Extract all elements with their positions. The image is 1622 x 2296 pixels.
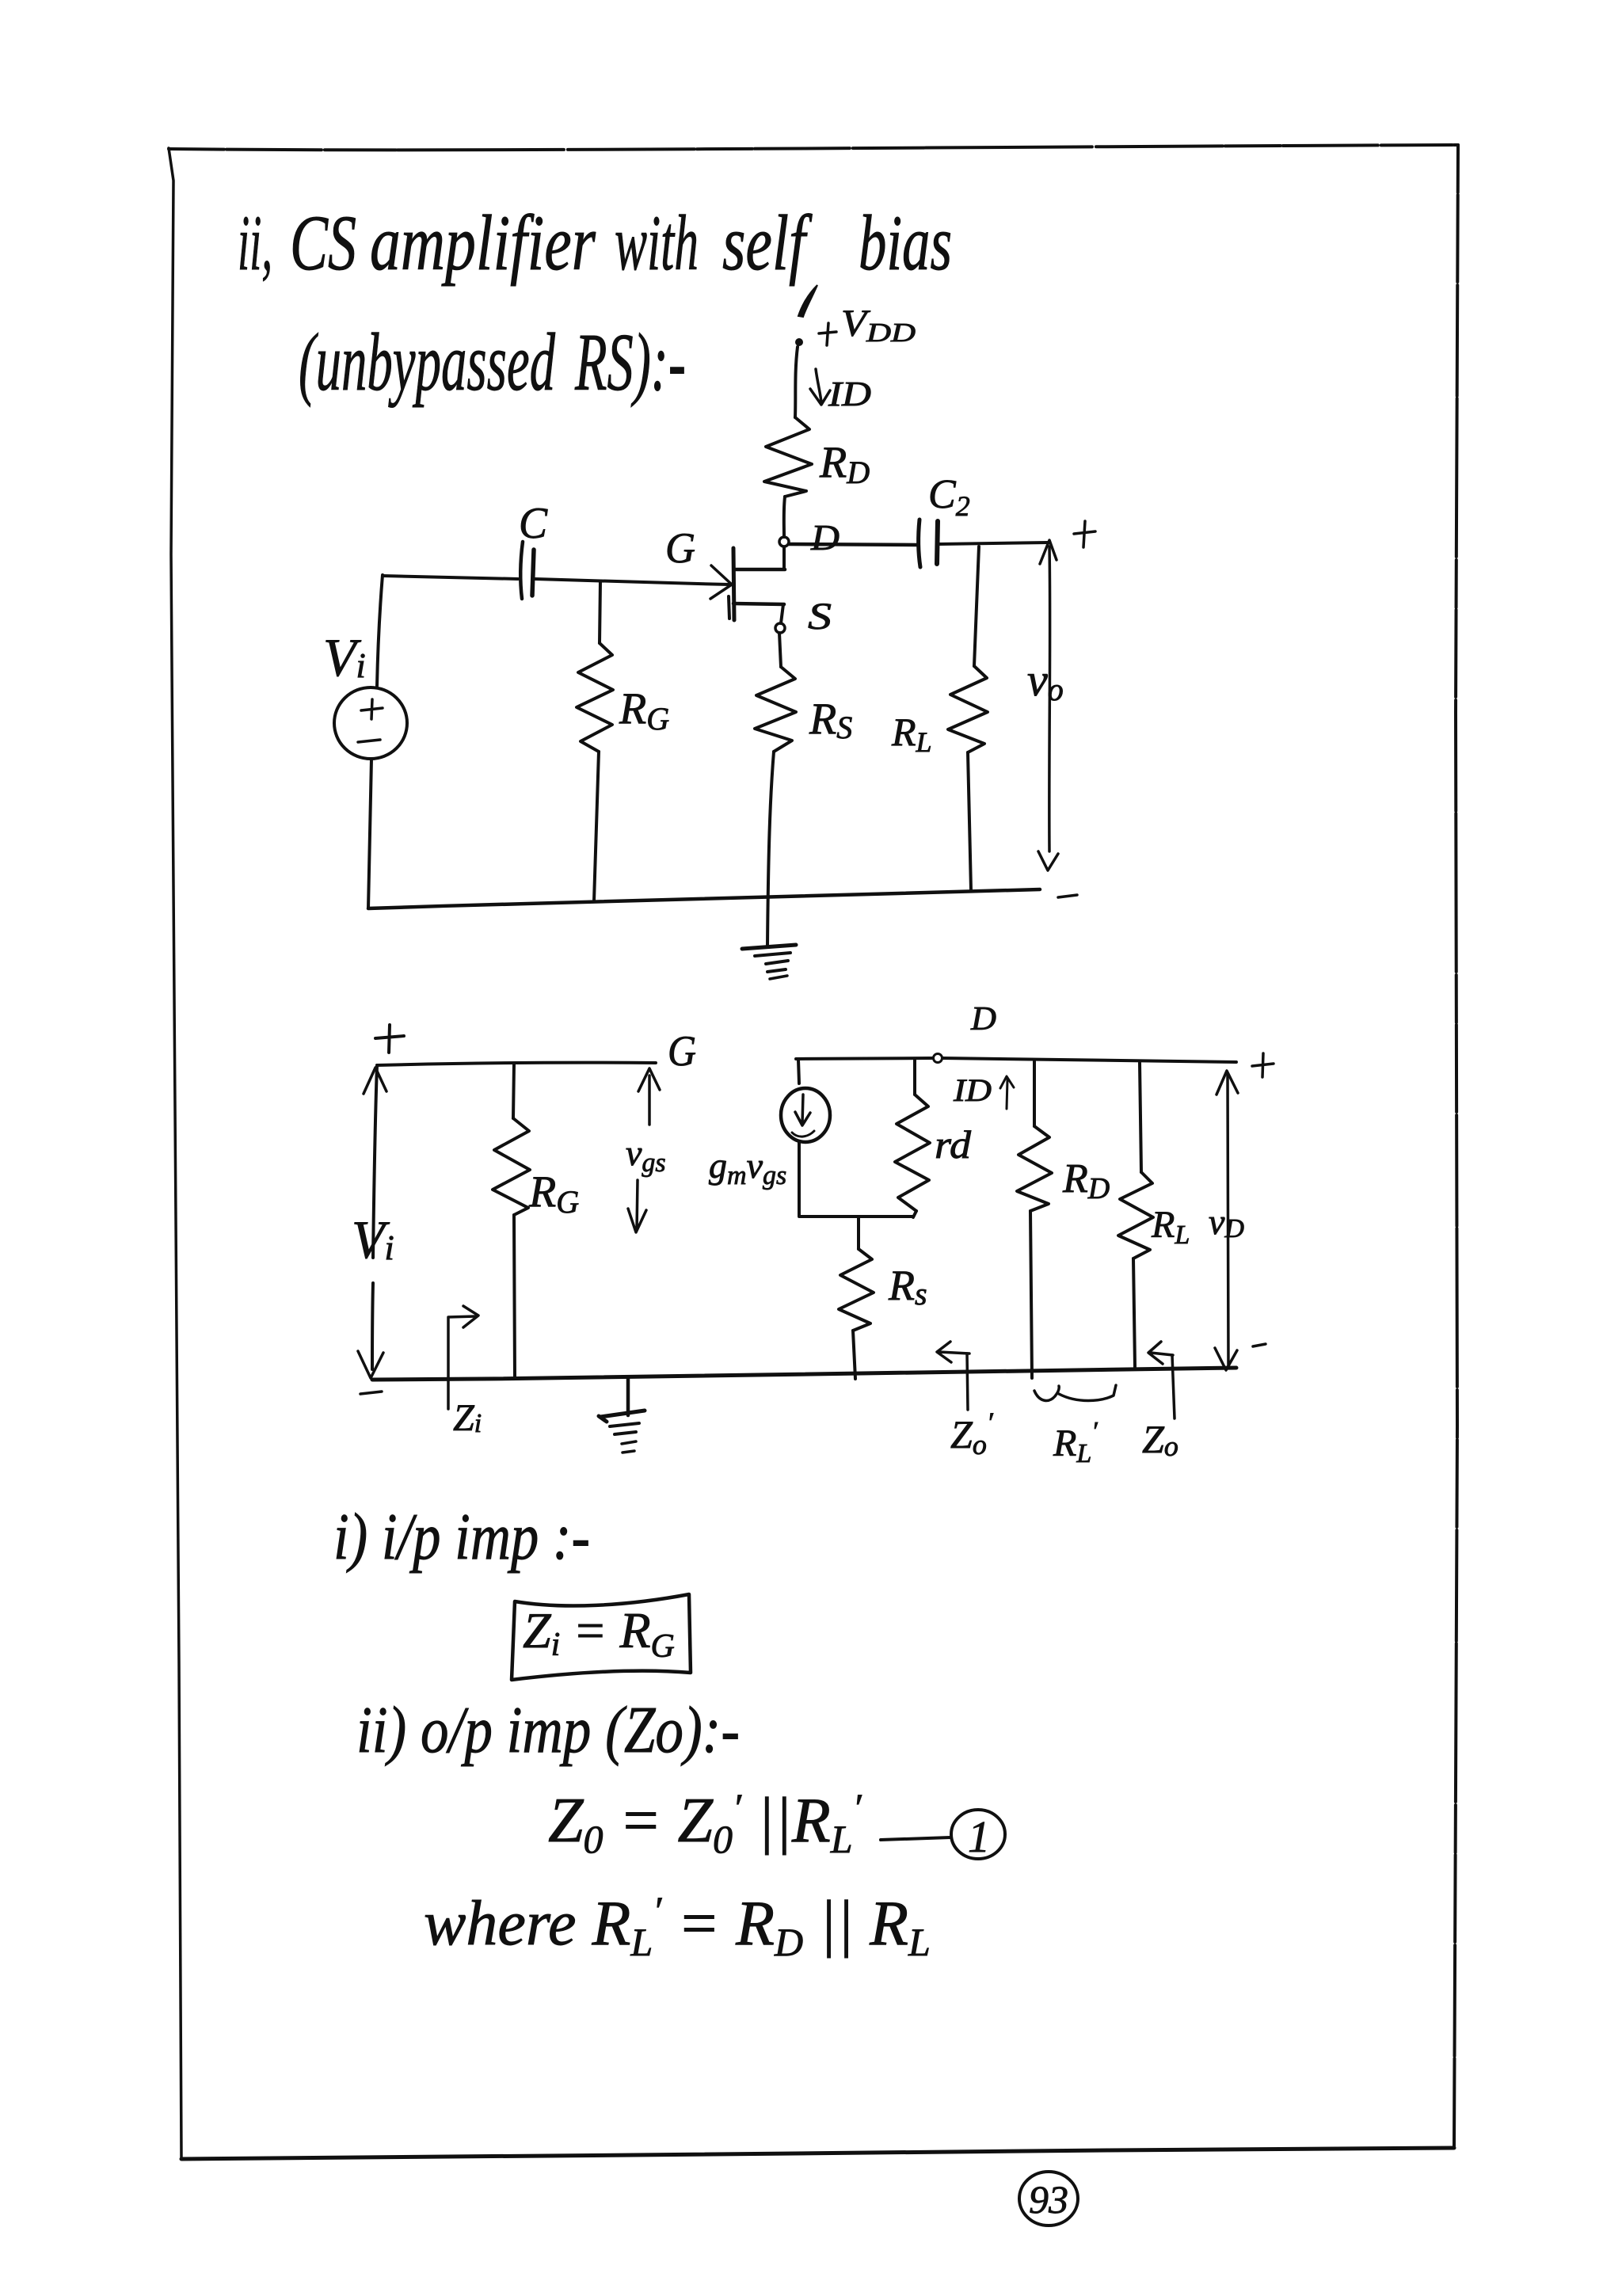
arrow vo top [1040,540,1057,564]
resistor RG [577,581,613,901]
node VDD [795,285,817,346]
svg-text:C: C [519,499,548,548]
page number 93 [1019,2172,1078,2226]
current arrow ID [810,369,871,413]
formula box [512,1594,691,1680]
label +VDD [819,303,916,348]
svg-text:DD: DD [866,318,916,348]
svg-text:amplifier: amplifier [370,199,596,287]
node D [934,1054,942,1063]
svg-text:CS: CS [290,199,356,287]
equation tag circled 1 [951,1810,1005,1862]
resistor RD [1017,1061,1052,1378]
wire drain up [782,547,786,569]
wire top middle [796,1058,1236,1062]
resistor RL [1118,1063,1153,1367]
page frame top [169,145,1458,150]
label minus bottom-left [360,1392,382,1394]
bottom wire circuit 2 [372,1368,1236,1380]
svg-text:RL′: RL′ [1053,1417,1098,1468]
svg-text:D: D [970,1001,996,1038]
resistor RL [948,546,988,890]
current arrow ID [953,1072,1014,1109]
arrow vo line [1038,546,1058,870]
wire C2 to output plus [939,543,1049,544]
svg-text:rd: rd [935,1122,972,1167]
wire VDD to RD [795,347,798,417]
svg-text:i) i/p imp :-: i) i/p imp :- [333,1500,590,1574]
wire source loop [799,1143,913,1217]
svg-text:G: G [665,524,695,572]
bottom wire circuit 1 [368,889,1040,908]
arrow Zo [1148,1342,1175,1418]
svg-text:ii) o/p imp (Zo):-: ii) o/p imp (Zo):- [356,1693,740,1767]
resistor RG [493,1064,530,1378]
resistor Rs [839,1217,874,1379]
svg-text:(unbypassed: (unbypassed [299,317,556,408]
svg-text:ID: ID [828,375,871,413]
svg-text:self: self [722,199,813,287]
ground [599,1377,645,1453]
title line 1 [238,199,952,287]
wire RS to ground [767,752,774,946]
source Vi [334,687,407,759]
wire S to RS [779,633,781,667]
capacitor C2 [919,520,938,567]
source gmvgs [781,1060,830,1142]
svg-text:ii,: ii, [238,199,272,287]
svg-text:ID: ID [953,1072,992,1108]
svg-text:bias: bias [859,199,952,287]
arrow vD [1215,1071,1238,1370]
ground [742,945,796,979]
page frame bottom [181,2148,1454,2159]
title line 2 [299,317,686,408]
wire Vi to C [383,576,518,579]
svg-text:93: 93 [1029,2177,1068,2222]
transistor Q1 JFET [710,548,785,620]
label minus (output) [1058,895,1077,897]
label plus top-right [1252,1053,1274,1077]
label plus (output) [1074,521,1095,547]
page frame left [169,148,181,2159]
equation tag line [881,1837,950,1840]
wire Vi to bottom [368,759,371,908]
arrow vgs [628,1180,646,1232]
node D [779,537,789,546]
wire RD to node D [784,497,785,537]
svg-text:G: G [668,1027,696,1075]
wire D to C2 [789,544,917,545]
wire top left loop [377,1063,656,1065]
arrow Vi left [358,1065,386,1378]
arrow node G [638,1068,660,1125]
label minus right [1253,1344,1266,1346]
wire gate [535,579,729,584]
svg-text:with: with [615,199,699,287]
resistor rd [895,1059,930,1217]
svg-text:where RL′ = RD || RL: where RL′ = RD || RL [424,1888,931,1964]
resistor RD [764,417,812,497]
wire source down [781,604,783,623]
brace RL prime [1034,1385,1116,1401]
arrow Zo prime [937,1342,969,1410]
svg-text:1: 1 [968,1813,990,1862]
svg-text:S: S [808,596,832,638]
wire corner down to Vi [377,575,383,686]
resistor RS [755,667,796,752]
node S [775,623,785,633]
capacitor C [520,542,534,599]
arrow Zi [448,1306,478,1409]
page frame right [1454,145,1458,2148]
label plus top-left [375,1025,404,1053]
svg-text:D: D [810,517,840,558]
svg-text:RS):-: RS):- [574,317,686,408]
